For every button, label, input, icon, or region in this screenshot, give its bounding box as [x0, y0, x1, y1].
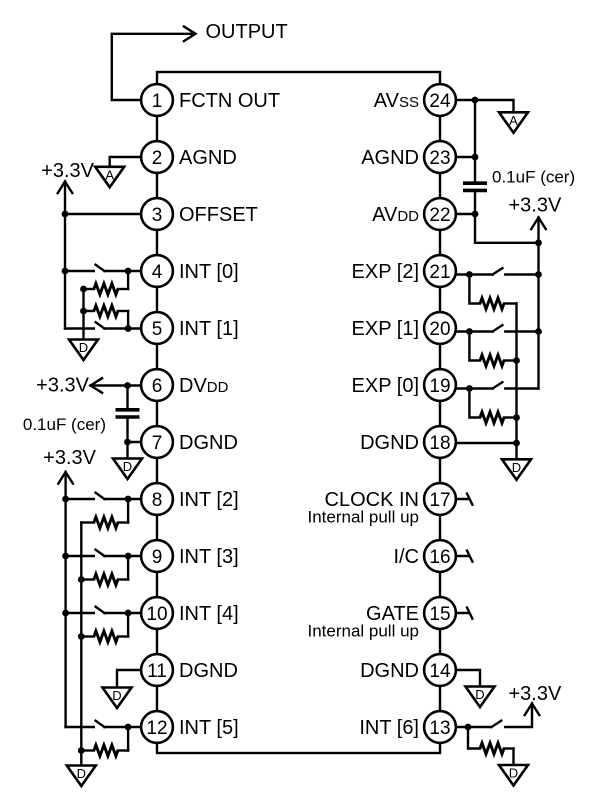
wire: pin 13 resistor to ground	[512, 749, 514, 766]
svg-text:5: 5	[152, 319, 163, 340]
pin 17	[424, 483, 456, 515]
switch: pin 21 (EXP) to +3.3V	[469, 273, 492, 275]
node: junction resistor bus (pin 4 resistor)	[80, 286, 87, 293]
wire: chip pin-chain outline (pins 1-12 left, 24-13 right, joined top and bottom)	[157, 72, 440, 753]
pin 14	[424, 654, 456, 686]
node: junction resistor bus (pin 10 resistor)	[78, 633, 85, 640]
wire: +3.3V drop to pin 13 switch	[505, 704, 532, 728]
svg-text:D: D	[475, 687, 484, 702]
svg-text:10: 10	[146, 604, 167, 625]
wire: pin 20 to switch	[440, 330, 469, 332]
wire: switch to pin 9	[128, 555, 157, 557]
switch: pin 9 (INT [3]) to +3.3V	[66, 555, 94, 557]
arrowhead: +3.3V left arrow (DVDD)	[91, 378, 103, 393]
svg-text:20: 20	[429, 319, 450, 340]
node: junction resistor bus (pin 5 resistor)	[80, 308, 87, 315]
node: junction resistor bus (pin 9 resistor)	[78, 576, 85, 583]
svg-text:18: 18	[429, 433, 450, 454]
svg-text:22: 22	[429, 205, 450, 226]
node: junction pin 5 wire	[125, 325, 132, 332]
svg-text:D: D	[77, 766, 86, 781]
switch: pin 5 (INT [1]) to +3.3V	[65, 327, 94, 329]
svg-text:EXP [2]: EXP [2]	[352, 261, 419, 283]
svg-text:Internal pull up: Internal pull up	[307, 508, 419, 527]
node: junction resistor bus (pin 20 resistor)	[513, 357, 520, 364]
svg-text:DGND: DGND	[179, 432, 238, 454]
node: junction +3.3V rail / AVDD branch	[535, 239, 542, 246]
node: junction pin 24 / bypass cap line	[472, 97, 479, 104]
wire: pin 21 junction down to resistor	[469, 275, 480, 304]
svg-text:DGND: DGND	[179, 660, 238, 682]
pin 13	[424, 711, 456, 743]
svg-text:OUTPUT: OUTPUT	[206, 21, 288, 43]
svg-text:+3.3V: +3.3V	[509, 683, 562, 705]
svg-text:+3.3V: +3.3V	[41, 160, 94, 182]
pin 19	[424, 369, 456, 401]
pin 20	[424, 312, 456, 344]
svg-text:A: A	[509, 113, 518, 128]
resistor: pin 9 pull-down	[81, 578, 94, 580]
node: junction rail / pin 8 switch	[62, 496, 69, 503]
switch: pin 19 (EXP) to +3.3V	[469, 387, 492, 389]
arrowhead: OUTPUT signal arrow	[184, 27, 196, 42]
node: junction resistor bus (pin 19 resistor)	[513, 414, 520, 421]
switch: pin 8 (INT [2]) to +3.3V	[66, 498, 94, 500]
svg-text:AGND: AGND	[361, 147, 419, 169]
node: junction rail / pin4 switch	[62, 268, 69, 275]
wire: switch to pin 4	[128, 270, 157, 272]
ground: digital ground D (pin 14)	[466, 687, 495, 708]
pin 24	[424, 84, 456, 116]
svg-text:8: 8	[152, 490, 163, 511]
wire: +3.3V rail upper left (feeds pin 3, switches of pins 4,5)	[64, 182, 66, 329]
node: junction pin 10 wire	[125, 610, 132, 617]
switch: pin 16 open input tick	[440, 555, 468, 557]
arrowhead: +3.3V up arrow (pin 13)	[525, 704, 540, 716]
wire: +3.3V rail right (feeds switches of pins 21,20,19)	[537, 218, 539, 389]
pin 18	[424, 426, 456, 458]
svg-text:+3.3V: +3.3V	[43, 447, 96, 469]
wire: pin 23 to cap line	[440, 156, 475, 158]
svg-text:11: 11	[147, 661, 167, 682]
svg-text:3: 3	[152, 205, 163, 226]
svg-text:AVSS: AVSS	[374, 90, 419, 112]
pin 23	[424, 141, 456, 173]
pin 4	[141, 255, 173, 287]
wire: cap line lower / pin 22 to +3.3V branch	[440, 192, 539, 243]
wire: pin 20 junction down to resistor	[469, 332, 480, 361]
svg-text:A: A	[105, 167, 114, 182]
ground: digital ground D (lower left bus)	[67, 766, 96, 787]
svg-text:INT [3]: INT [3]	[179, 546, 239, 568]
svg-text:12: 12	[146, 718, 167, 739]
wire: pin 8 junction down to resistor	[127, 499, 129, 523]
svg-text:I/C: I/C	[393, 546, 419, 568]
switch: pin 17 open input tick	[440, 498, 468, 500]
wire: pin 19 junction down to resistor	[469, 389, 480, 418]
svg-text:INT [5]: INT [5]	[179, 717, 239, 739]
node: junction pin 22 / cap line	[472, 211, 479, 218]
node: junction pin 19 wire	[466, 385, 473, 392]
wire: switch to pin 12	[128, 726, 157, 728]
svg-text:INT [2]: INT [2]	[179, 489, 239, 511]
node: junction rail / pin 21 switch	[535, 271, 542, 278]
svg-text:23: 23	[429, 148, 450, 169]
wire: resistor ground bus (right)	[515, 304, 517, 460]
node: junction pin 21 wire	[466, 271, 473, 278]
wire: pin 14 DGND to ground	[440, 670, 480, 687]
node: junction pin 4 wire	[125, 268, 132, 275]
svg-text:7: 7	[152, 433, 163, 454]
wire: rail to pin 3 (OFFSET)	[65, 213, 157, 215]
wire: pin 10 junction down to resistor	[127, 613, 129, 637]
wire: resistor ground bus (upper left)	[82, 289, 84, 340]
wire: switch to pin 8	[128, 498, 157, 500]
node: junction pin 12 wire	[125, 724, 132, 731]
svg-text:0.1uF (cer): 0.1uF (cer)	[492, 168, 575, 187]
wire: resistor ground bus (lower left)	[80, 523, 82, 766]
svg-text:INT [6]: INT [6]	[359, 717, 419, 739]
svg-text:0.1uF (cer): 0.1uF (cer)	[23, 415, 106, 434]
wire: switch to pin 10	[128, 612, 157, 614]
capacitor C 0.1uF (right)	[463, 183, 487, 190]
svg-text:15: 15	[429, 604, 450, 625]
node: junction rail / pin 9 switch	[62, 553, 69, 560]
wire: pin 11 to digital ground	[117, 670, 157, 688]
wire: pin 13 junction down to resistor	[468, 727, 480, 749]
pin 21	[424, 255, 456, 287]
pin 12	[141, 711, 173, 743]
switch: pin 4 (INT [0]) to +3.3V	[65, 270, 94, 272]
node: junction on rail at pin 3	[62, 211, 69, 218]
pin 11	[141, 654, 173, 686]
svg-text:AGND: AGND	[179, 147, 237, 169]
svg-text:D: D	[512, 460, 521, 475]
node: junction pin 9 wire	[125, 553, 132, 560]
resistor: pin 13 pull-down	[480, 743, 504, 754]
wire: switch to pin 5	[128, 327, 157, 329]
switch: pin 13 (INT [6]) to +3.3V	[468, 726, 492, 728]
resistor: pin 4 pull-down	[84, 288, 94, 290]
svg-text:17: 17	[429, 490, 450, 511]
resistor: pin 21 pull-down	[480, 298, 504, 309]
svg-text:Internal pull up: Internal pull up	[307, 622, 419, 641]
wire: pin 19 to switch	[440, 387, 469, 389]
svg-text:21: 21	[429, 262, 450, 283]
svg-text:4: 4	[152, 262, 163, 283]
resistor: pin 10 pull-down	[81, 635, 94, 637]
svg-text:6: 6	[152, 376, 163, 397]
arrowhead: +3.3V up arrow (lower left rail)	[58, 472, 73, 484]
arrowhead: +3.3V up arrow (upper left rail)	[58, 182, 73, 194]
capacitor C 0.1uF (left)	[116, 410, 140, 417]
svg-text:D: D	[112, 688, 121, 703]
ground: digital ground D (pin 11 DGND)	[103, 688, 132, 709]
svg-text:INT [4]: INT [4]	[179, 603, 239, 625]
svg-text:FCTN OUT: FCTN OUT	[179, 90, 280, 112]
svg-text:OFFSET: OFFSET	[179, 204, 258, 226]
svg-text:DGND: DGND	[360, 432, 419, 454]
switch: pin 15 open input tick	[440, 612, 468, 614]
switch: pin 10 (INT [4]) to +3.3V	[66, 612, 94, 614]
pin 3	[141, 198, 173, 230]
wire: pin 1 to OUTPUT branch	[112, 34, 193, 100]
pin 10	[141, 597, 173, 629]
svg-text:9: 9	[152, 547, 163, 568]
pin 2	[141, 141, 173, 173]
wire: pin 7 ground stub	[126, 442, 128, 459]
pin 5	[141, 312, 173, 344]
resistor: pin 5 pull-down	[84, 310, 94, 312]
ground: analog ground A (pin 24)	[499, 112, 528, 133]
node: junction capacitor / pin 7	[124, 439, 131, 446]
wire: pin 2 to analog ground	[110, 157, 157, 167]
node: junction pin 20 wire	[466, 328, 473, 335]
svg-text:+3.3V: +3.3V	[36, 375, 89, 397]
wire: pin 5 resistor up to switch junction	[127, 311, 129, 329]
svg-text:INT [0]: INT [0]	[179, 261, 239, 283]
svg-text:EXP [1]: EXP [1]	[352, 318, 419, 340]
svg-text:INT [1]: INT [1]	[179, 318, 239, 340]
node: junction resistor bus (pin 12 resistor)	[78, 747, 85, 754]
svg-text:13: 13	[429, 718, 450, 739]
svg-text:16: 16	[429, 547, 450, 568]
switch: pin 12 (INT [5]) to +3.3V	[66, 726, 94, 728]
pin 22	[424, 198, 456, 230]
wire: pin 24 AVSS to analog ground	[440, 100, 514, 112]
wire: pin 12 junction down to resistor	[127, 727, 129, 751]
pin 6	[141, 369, 173, 401]
pin 15	[424, 597, 456, 629]
resistor: pin 12 pull-down	[81, 749, 94, 751]
resistor: pin 20 pull-down	[480, 355, 504, 366]
svg-text:+3.3V: +3.3V	[509, 195, 562, 217]
node: junction pin 23 / cap line	[472, 154, 479, 161]
svg-text:14: 14	[429, 661, 451, 682]
resistor: pin 8 pull-down	[81, 521, 94, 523]
node: junction pin 8 wire	[125, 496, 132, 503]
wire: pin 13 to switch	[440, 726, 468, 728]
node: junction pin 13 wire	[465, 724, 472, 731]
wire: pin 21 to switch	[440, 273, 469, 275]
node: junction pin 6 / capacitor	[124, 382, 131, 389]
svg-text:EXP [0]: EXP [0]	[352, 375, 419, 397]
pin 7	[141, 426, 173, 458]
svg-text:DGND: DGND	[360, 660, 419, 682]
ground: digital ground D (pins 4/5 resistors)	[69, 340, 98, 361]
node: junction rail / pin 20 switch	[535, 328, 542, 335]
ground: analog ground A (pin 2)	[95, 167, 124, 188]
svg-text:D: D	[509, 766, 518, 781]
pin 8	[141, 483, 173, 515]
svg-text:2: 2	[152, 148, 163, 169]
ground: digital ground D (right bus)	[502, 459, 531, 480]
wire: bypass capacitor line (pins 24,23,22) upper	[474, 100, 476, 181]
resistor: pin 19 pull-down	[480, 412, 504, 423]
ground: digital ground D (pin 13)	[499, 765, 528, 786]
pin 1	[141, 84, 173, 116]
wire: capacitor top lead	[126, 386, 128, 409]
svg-text:19: 19	[429, 376, 450, 397]
svg-text:AVDD: AVDD	[372, 204, 419, 226]
wire: pin 4 junction down to resistor	[127, 271, 129, 289]
wire: capacitor bottom lead to pin 7	[128, 419, 158, 442]
svg-text:1: 1	[152, 91, 163, 112]
wire: pin 6 DVDD supply	[91, 384, 158, 386]
wire: pin 18 DGND to resistor bus	[440, 442, 517, 444]
svg-text:D: D	[79, 340, 88, 355]
pin 16	[424, 540, 456, 572]
node: junction pin 18 / resistor bus	[513, 440, 520, 447]
arrowhead: +3.3V up arrow (right rail)	[531, 218, 546, 230]
pin 9	[141, 540, 173, 572]
wire: pin 9 junction down to resistor	[127, 556, 129, 580]
node: junction rail / pin 10 switch	[62, 610, 69, 617]
wire: +3.3V rail lower left (feeds switches of pins 8,9,10,12)	[64, 472, 66, 727]
svg-text:DVDD: DVDD	[179, 375, 229, 397]
switch: pin 20 (EXP) to +3.3V	[469, 330, 492, 332]
svg-text:24: 24	[429, 91, 451, 112]
svg-text:D: D	[123, 459, 132, 474]
ground: digital ground D (pin 7 DGND)	[113, 459, 142, 480]
